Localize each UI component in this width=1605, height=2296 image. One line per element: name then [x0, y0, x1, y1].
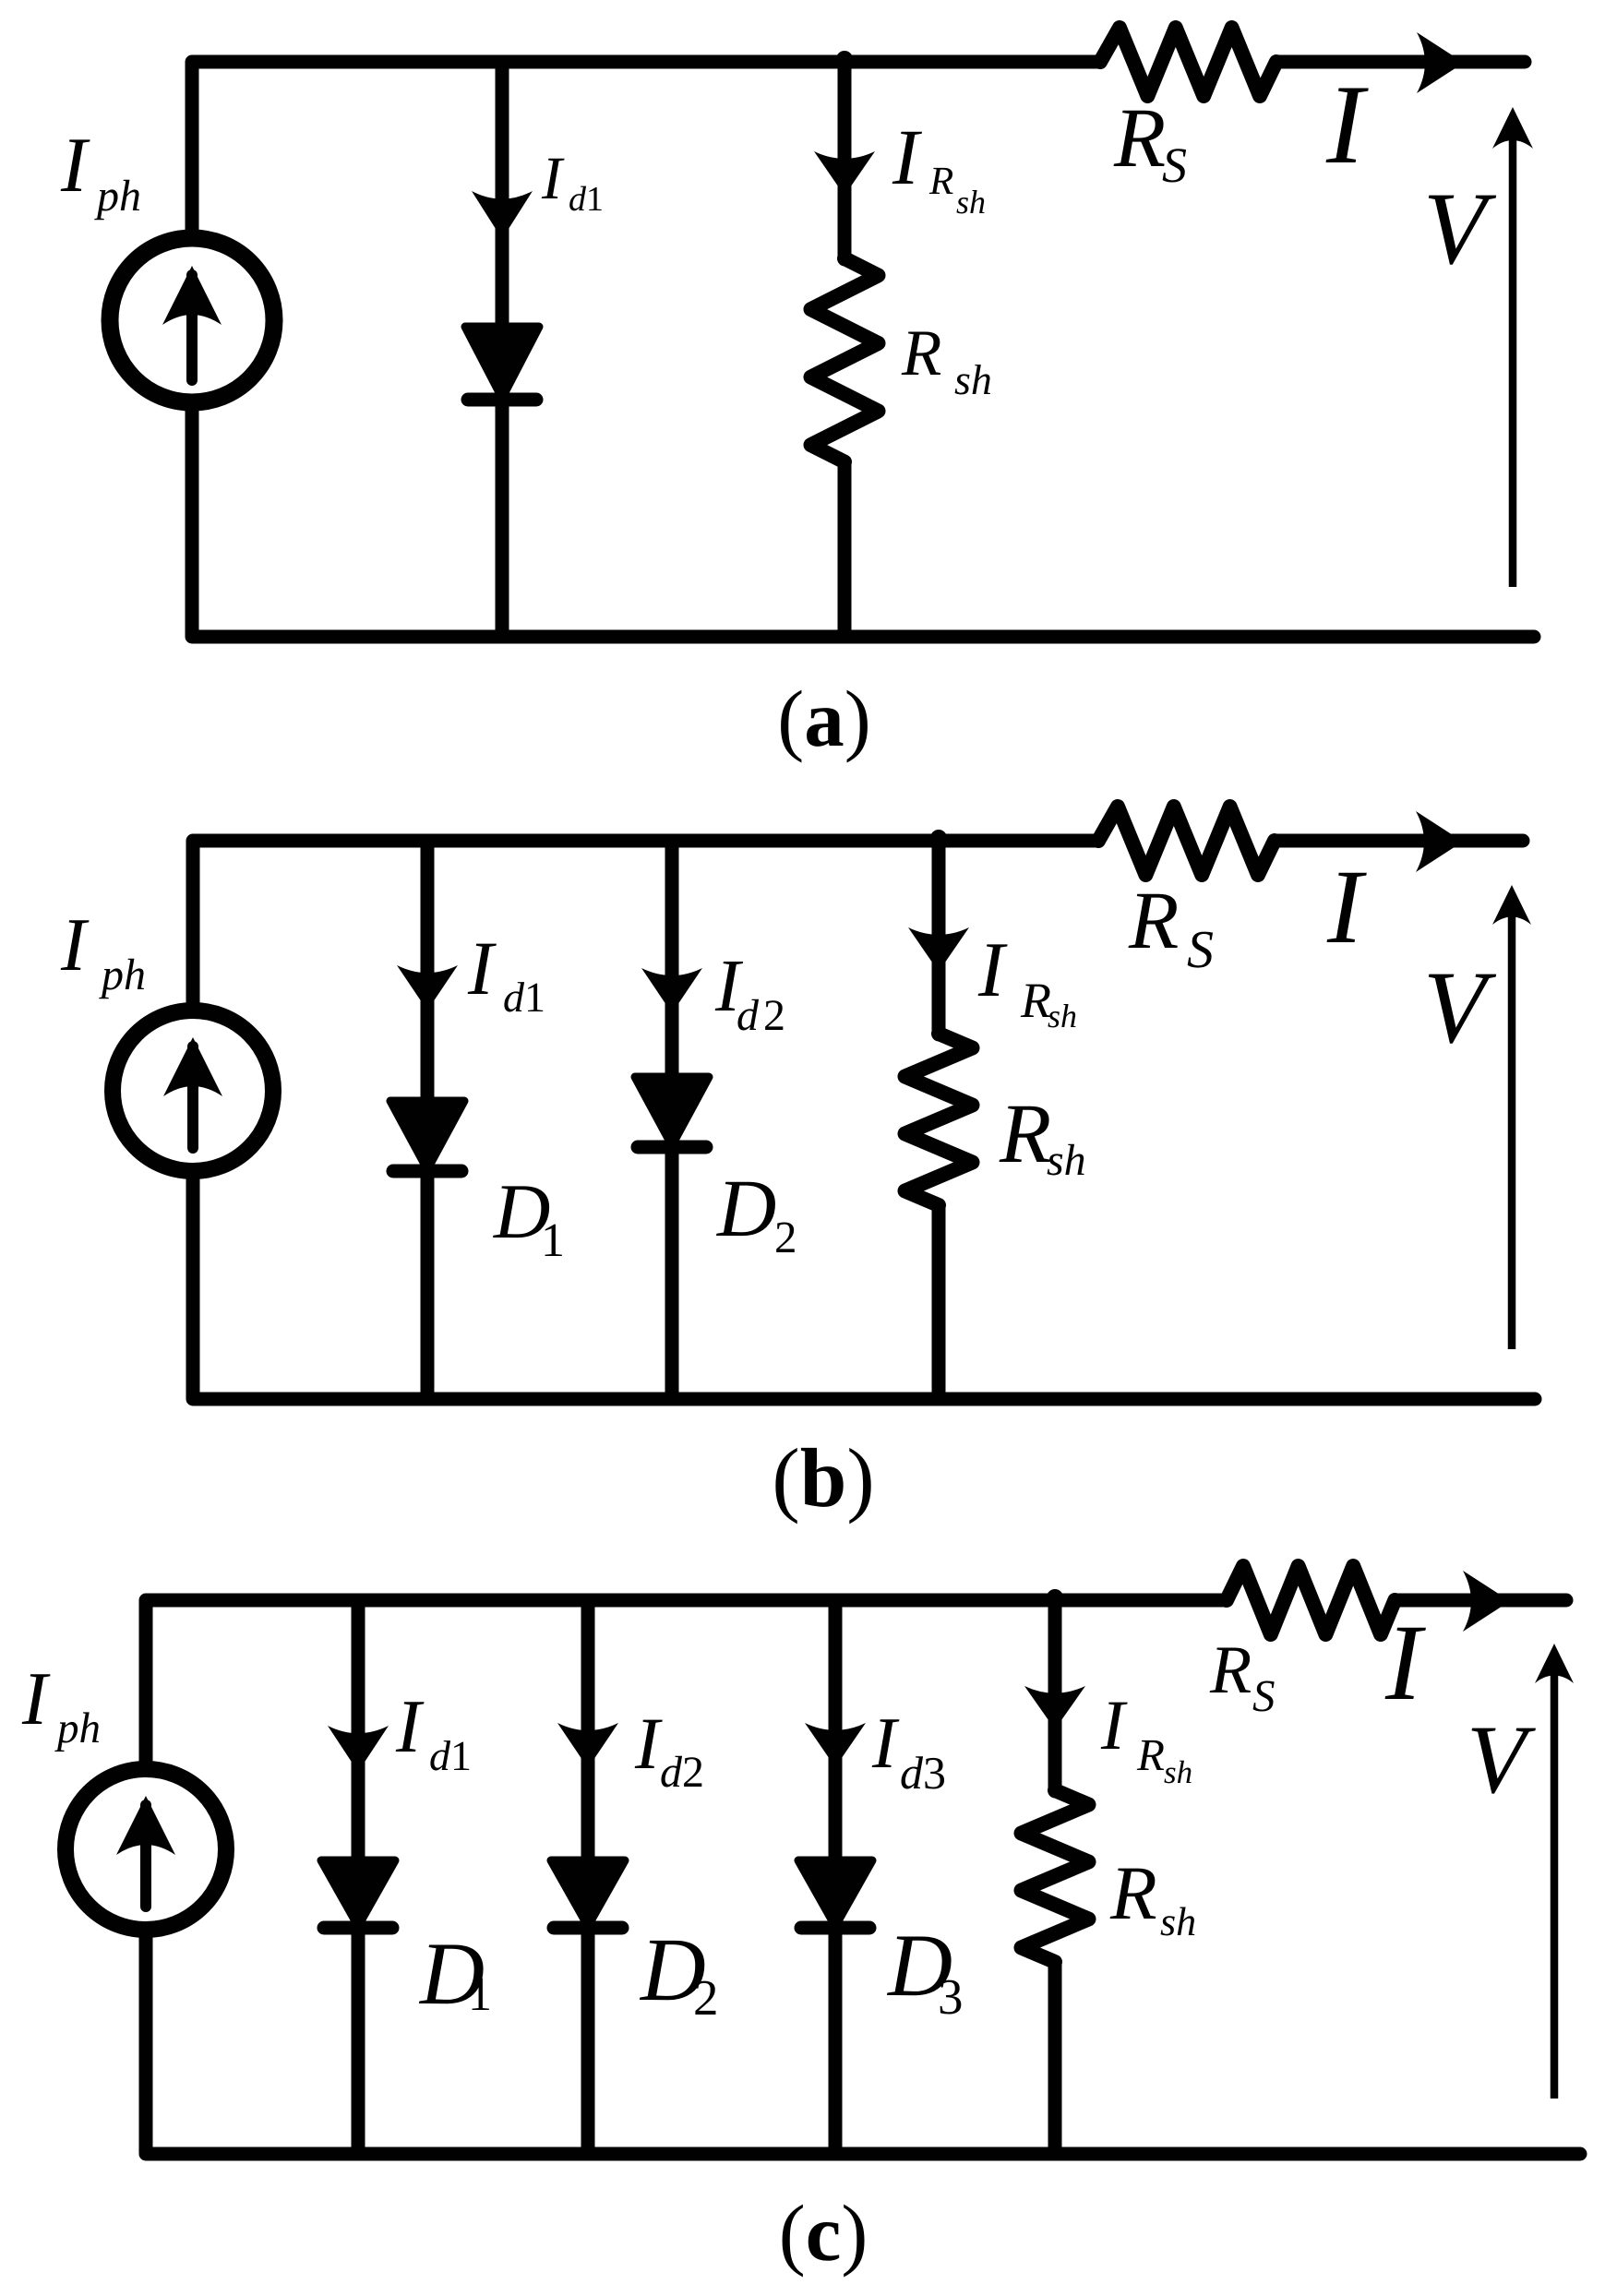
label Rsh (b) — [999, 1086, 1086, 1185]
svg-text:d: d — [503, 974, 525, 1021]
label D2 (c) — [639, 1920, 719, 2026]
diode D3 (c) — [798, 1860, 872, 1928]
svg-text:I: I — [1100, 1685, 1128, 1764]
svg-text:R: R — [928, 160, 953, 203]
wire: shunt branch upper (c) — [1048, 1600, 1062, 1791]
svg-text:1: 1 — [586, 180, 604, 219]
svg-text:(a): (a) — [777, 674, 870, 763]
wire: left branch lower + bottom rail (b) — [193, 1178, 1535, 1399]
wire: shunt branch lower (c) — [1048, 1962, 1062, 2154]
svg-text:d: d — [660, 1748, 683, 1797]
svg-text:sh: sh — [1047, 1136, 1086, 1185]
resistor RS (c) zigzag — [1227, 1566, 1395, 1634]
label D1 (c) — [418, 1924, 492, 2023]
wire: top rail right of RS (c) — [1395, 1594, 1566, 1608]
resistor Rsh (c) zigzag — [1022, 1790, 1089, 1962]
svg-text:ph: ph — [94, 172, 141, 221]
current arrow Id2 (b) — [641, 968, 702, 1013]
wire: diode branch D3 (c) — [829, 1600, 843, 2154]
label V (a) — [1423, 172, 1497, 286]
label V (b) — [1423, 951, 1497, 1065]
svg-text:ph: ph — [54, 1704, 101, 1752]
svg-text:sh: sh — [956, 184, 986, 221]
label I (c) — [1384, 1602, 1426, 1723]
current source arrow (b) — [163, 1037, 222, 1148]
label Id2 (b) — [714, 944, 785, 1040]
svg-text:R: R — [1020, 973, 1051, 1028]
current source arrow (a) — [162, 266, 222, 380]
svg-text:ph: ph — [99, 951, 146, 999]
voltage arrow V (a) — [1492, 107, 1533, 587]
current arrow IRsh (b) — [908, 927, 969, 972]
svg-text:V: V — [1423, 172, 1497, 286]
resistor Rsh (a) zigzag — [811, 258, 879, 462]
svg-text:I: I — [60, 122, 90, 209]
current source U1 circle (c) — [66, 1769, 226, 1930]
svg-text:sh: sh — [954, 356, 992, 403]
current arrow Id1 (c) — [328, 1726, 389, 1772]
resistor Rsh (b) zigzag — [905, 1034, 973, 1205]
wire: diode branch (a) — [496, 62, 509, 637]
voltage arrow V (c) — [1535, 1644, 1574, 2099]
current arrow Id3 (c) — [805, 1723, 866, 1767]
svg-text:I: I — [1326, 848, 1367, 965]
caption (c) — [779, 2188, 868, 2278]
diode D1 (c) — [321, 1860, 395, 1928]
svg-text:R: R — [1209, 1632, 1252, 1708]
label IRsh (c) — [1100, 1685, 1192, 1790]
svg-text:S: S — [1162, 138, 1187, 193]
wire: left branch upper + top rail (a) — [192, 62, 1100, 231]
diode D1 (a) — [465, 327, 539, 400]
svg-text:R: R — [1109, 1850, 1157, 1935]
label I (b) — [1326, 848, 1367, 965]
wire: left branch upper + top rail (c) — [146, 1600, 1227, 1763]
current arrow IRsh (c) — [1024, 1686, 1085, 1729]
svg-text:sh: sh — [1048, 998, 1077, 1034]
svg-text:I: I — [634, 1704, 663, 1785]
current arrow Id1 (a) — [472, 191, 533, 239]
label D1 (b) — [493, 1168, 565, 1267]
svg-text:sh: sh — [1160, 1899, 1196, 1944]
label IRsh (b) — [977, 927, 1077, 1034]
current arrow IRsh (a) — [814, 151, 875, 196]
node: junction dot (c) — [1047, 1589, 1063, 1606]
caption (b) — [772, 1431, 874, 1525]
svg-text:I: I — [541, 145, 565, 212]
svg-text:D: D — [716, 1164, 776, 1254]
wire: left branch upper + top rail (b) — [193, 841, 1098, 1003]
svg-text:R: R — [1128, 876, 1179, 966]
svg-text:I: I — [1384, 1602, 1426, 1723]
circuit (a): single-diode PV cell model — [60, 28, 1534, 763]
svg-text:I: I — [21, 1656, 51, 1740]
circuit (c): three-diode PV cell model — [21, 1566, 1580, 2278]
wire: diode branch D2 (c) — [581, 1600, 595, 2154]
svg-text:I: I — [467, 926, 497, 1010]
wire: left branch lower + bottom rail (c) — [146, 1937, 1580, 2154]
label RS (c) — [1209, 1632, 1276, 1721]
diode D1 (b) — [390, 1101, 464, 1171]
svg-text:1: 1 — [524, 974, 545, 1021]
svg-text:2: 2 — [774, 1212, 797, 1262]
svg-text:d: d — [429, 1732, 451, 1779]
current source arrow (c) — [116, 1796, 175, 1907]
svg-text:1: 1 — [541, 1214, 565, 1267]
label Id1 (b) — [467, 926, 545, 1021]
svg-text:R: R — [1113, 90, 1166, 185]
voltage arrow V (b) — [1492, 885, 1531, 1349]
wire: diode branch D1 (b) — [421, 841, 435, 1399]
label Rsh (a) — [901, 317, 992, 403]
svg-text:V: V — [1423, 951, 1497, 1065]
current arrow I output (b) — [1416, 811, 1463, 872]
svg-text:R: R — [1136, 1729, 1165, 1780]
label Iph (c) — [21, 1656, 101, 1752]
resistor RS (b) zigzag — [1098, 807, 1275, 875]
node: junction dot (b) — [930, 830, 947, 846]
label D2 (b) — [716, 1164, 797, 1262]
svg-text:1: 1 — [450, 1732, 472, 1779]
svg-text:d: d — [737, 991, 760, 1040]
wire: shunt branch lower (a) — [838, 462, 852, 638]
svg-text:S: S — [1187, 919, 1214, 979]
svg-text:I: I — [395, 1684, 425, 1768]
svg-text:R: R — [999, 1086, 1051, 1180]
label Iph (b) — [60, 903, 146, 999]
svg-text:1: 1 — [468, 1968, 492, 2021]
wire: shunt branch upper (b) — [932, 841, 946, 1034]
node: junction dot (a) — [836, 51, 853, 67]
svg-text:S: S — [1252, 1670, 1276, 1721]
current arrow I output (c) — [1463, 1571, 1510, 1632]
label Id1 (c) — [395, 1684, 472, 1779]
svg-text:2: 2 — [763, 991, 785, 1040]
label Id3 (c) — [871, 1704, 946, 1799]
label D3 (c) — [886, 1916, 964, 2025]
svg-text:d: d — [569, 180, 587, 219]
svg-text:(c): (c) — [779, 2188, 868, 2278]
caption (a) — [777, 674, 870, 763]
diode D2 (c) — [551, 1860, 625, 1928]
label Id2 (c) — [634, 1704, 704, 1797]
svg-text:I: I — [977, 927, 1008, 1013]
label RS (a) — [1113, 90, 1187, 193]
svg-text:I: I — [892, 113, 922, 201]
wire: diode branch D2 (b) — [665, 841, 679, 1399]
svg-text:sh: sh — [1164, 1754, 1192, 1790]
wire: diode branch D1 (c) — [352, 1600, 365, 2154]
label Iph (a) — [60, 122, 141, 221]
current arrow Id2 (c) — [557, 1723, 618, 1768]
svg-text:R: R — [901, 317, 941, 389]
current source U1 circle (b) — [113, 1010, 273, 1171]
wire: shunt branch upper (a) — [838, 62, 852, 259]
svg-text:3: 3 — [938, 1968, 964, 2025]
wire: shunt branch lower (b) — [932, 1205, 946, 1399]
resistor RS (a) zigzag — [1100, 28, 1276, 96]
wire: left branch lower + bottom rail (a) — [192, 411, 1534, 637]
svg-text:2: 2 — [693, 1969, 719, 2026]
svg-text:2: 2 — [682, 1748, 704, 1797]
svg-text:I: I — [871, 1704, 900, 1784]
label I (a) — [1325, 61, 1369, 187]
svg-text:I: I — [60, 903, 90, 987]
diode D2 (b) — [635, 1077, 709, 1147]
label Rsh (c) — [1109, 1850, 1196, 1944]
label RS (b) — [1128, 876, 1214, 979]
wire: top rail right of RS (a) — [1276, 55, 1525, 69]
circuit (b): two-diode PV cell model — [60, 807, 1535, 1525]
svg-text:(b): (b) — [772, 1431, 874, 1525]
current arrow Id1 (b) — [397, 965, 458, 1010]
svg-text:V: V — [1467, 1705, 1536, 1813]
svg-text:I: I — [1325, 61, 1369, 187]
current arrow I output (a) — [1417, 32, 1464, 93]
svg-text:3: 3 — [923, 1747, 946, 1799]
svg-text:d: d — [900, 1747, 924, 1799]
label V (c) — [1467, 1705, 1536, 1813]
label IRsh (a) — [892, 113, 986, 221]
label Id1 (a) — [541, 145, 604, 219]
wire: top rail right of RS (b) — [1275, 834, 1523, 848]
current source U1 circle (a) — [110, 238, 274, 402]
